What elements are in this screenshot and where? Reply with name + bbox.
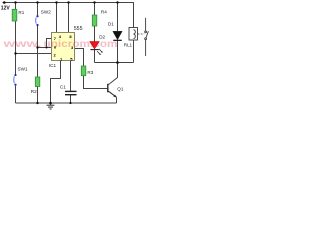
transistor Q1 xyxy=(108,84,117,98)
svg-text:SW1: SW1 xyxy=(18,67,28,72)
node ground junction xyxy=(49,102,52,105)
ground xyxy=(47,103,55,109)
svg-text:D2: D2 xyxy=(99,35,105,40)
relay RL1 dashed link xyxy=(138,33,144,35)
relay RL1 coil box xyxy=(129,28,138,41)
LED D2 xyxy=(90,42,103,56)
node R4 top xyxy=(93,1,95,3)
resistor R2 xyxy=(35,77,40,87)
node collector row junction xyxy=(116,61,119,64)
node R1 top xyxy=(14,1,16,3)
node R2 bottom xyxy=(36,102,38,104)
wire pin6 to SW2 line xyxy=(38,47,53,49)
svg-text:IC1: IC1 xyxy=(49,63,57,68)
wire C1 to rail xyxy=(70,95,72,103)
node D1 top xyxy=(116,1,118,3)
svg-text:www.: www. xyxy=(2,38,42,50)
IC IC1 555 timer body xyxy=(52,33,75,61)
svg-text:R2: R2 xyxy=(31,89,37,94)
svg-text:D1: D1 xyxy=(108,21,114,26)
wire pin5 to C1 xyxy=(70,61,72,92)
node pin7/pin6 junction xyxy=(46,47,48,49)
node pin4 top xyxy=(55,1,57,3)
node pin6/SW2 junction xyxy=(36,46,38,48)
node pin2/SW1 junction xyxy=(14,52,16,54)
wire rail drop to relay xyxy=(133,3,135,29)
svg-text:C1: C1 xyxy=(60,84,66,89)
wire 555 pin8 xyxy=(68,3,70,34)
svg-text:R3: R3 xyxy=(87,70,93,75)
switch SW1 xyxy=(14,74,17,86)
wire R4 branch xyxy=(94,3,96,42)
capacitor C1 xyxy=(65,91,77,94)
wire Q1 collector xyxy=(108,63,117,85)
wire D1 cathode to node xyxy=(117,41,119,63)
diode D1 xyxy=(113,31,122,40)
node pin8 top xyxy=(67,1,69,3)
wire pin1 to ground rail xyxy=(51,61,61,104)
wire bottom ground rail xyxy=(16,102,117,104)
node C1 bottom xyxy=(69,102,71,104)
relay contact switch xyxy=(145,18,149,56)
wire pin7 stub xyxy=(47,39,53,48)
wire 555 pin4 xyxy=(56,3,58,34)
node supply terminal xyxy=(3,1,6,4)
wire SW2/R2 branch xyxy=(37,3,39,104)
wire node row to relay xyxy=(95,40,134,62)
wire top supply rail xyxy=(3,2,135,4)
svg-text:Q1: Q1 xyxy=(117,87,124,92)
wire R3 to base xyxy=(84,76,108,89)
wire Q1 emitter down xyxy=(116,98,118,104)
resistor R4 xyxy=(92,15,97,26)
svg-text:12V: 12V xyxy=(1,5,11,11)
wire D1 branch xyxy=(117,3,119,32)
wire pin2 to SW1 line xyxy=(16,53,53,55)
svg-text:SW2: SW2 xyxy=(41,10,51,15)
svg-text:R1: R1 xyxy=(18,10,24,15)
svg-text:RL1: RL1 xyxy=(124,43,133,48)
svg-text:R4: R4 xyxy=(101,10,107,15)
wire pin3 to R3 xyxy=(75,49,84,67)
node SW2 top xyxy=(36,1,38,3)
wire R1 branch xyxy=(15,3,17,104)
resistor R1 xyxy=(12,9,17,21)
resistor R3 xyxy=(81,66,86,76)
switch SW2 xyxy=(36,15,39,26)
svg-text:555: 555 xyxy=(74,26,83,32)
wire LED cathode down xyxy=(94,50,96,63)
